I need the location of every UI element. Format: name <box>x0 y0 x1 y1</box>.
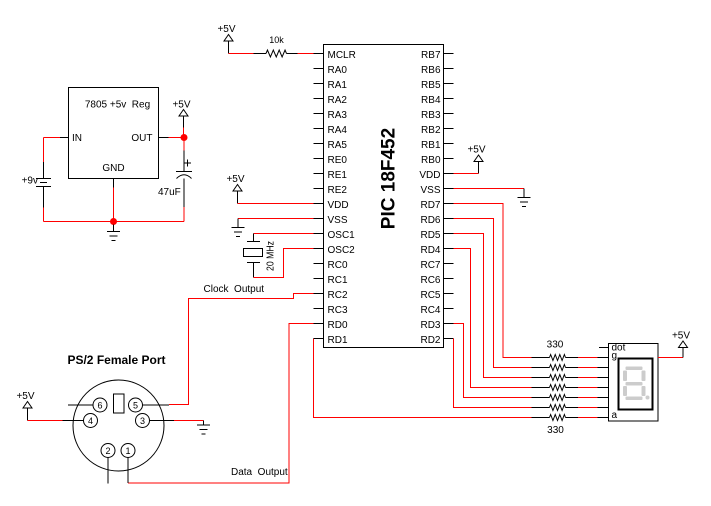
wire RD0 data output net <box>128 324 314 484</box>
pin stub U1 left OSC2 <box>314 248 324 250</box>
pin stub U1 right RC4 <box>444 308 454 310</box>
display segment bottom-left <box>623 386 627 396</box>
pin stub U1 right RD4 <box>444 248 454 250</box>
pin stub U1 left RE1 <box>314 173 324 175</box>
pin stub U1 right RB0 <box>444 158 454 160</box>
wire RC2 clock output net <box>169 294 314 405</box>
pin stub U1 left RA5 <box>314 143 324 145</box>
wire R8 to display <box>578 417 598 419</box>
resistor R3 330 lead left <box>532 367 550 369</box>
resistor R4 330 lead left <box>532 377 550 379</box>
pin stub U1 left MCLR <box>314 53 324 55</box>
svg-text:+5V: +5V <box>172 100 190 111</box>
resistor R6 330 lead left <box>532 397 550 399</box>
pin 2 stub (not connected) <box>107 458 109 484</box>
wire +5V to VDD pin <box>238 203 314 205</box>
wire R4 to display <box>578 377 598 379</box>
resistor R7 330 lead left <box>532 407 550 409</box>
svg-text:RD4: RD4 <box>420 245 440 256</box>
wire display common anode to +5V <box>658 357 683 359</box>
display DS1 outer body <box>609 344 659 422</box>
capacitor C1 bottom lead <box>183 179 185 208</box>
wire R2 to display <box>578 357 598 359</box>
resistor R5 330 body <box>550 385 566 391</box>
pin stub U1 left RC0 <box>314 263 324 265</box>
svg-text:20 MHz: 20 MHz <box>266 241 277 271</box>
pin stub U1 left RA0 <box>314 68 324 70</box>
svg-text:VSS: VSS <box>328 215 348 226</box>
svg-text:RC7: RC7 <box>420 260 440 271</box>
svg-text:7805 +5v Reg: 7805 +5v Reg <box>85 100 150 111</box>
resistor R2 330 lead left <box>532 357 550 359</box>
svg-text:RD2: RD2 <box>420 335 440 346</box>
svg-text:MCLR: MCLR <box>328 50 356 61</box>
resistor R8 330 lead left <box>532 417 550 419</box>
pin stub U1 right RB7 <box>444 53 454 55</box>
display segment bottom <box>626 397 643 401</box>
wire R1 to MCLR <box>298 53 314 55</box>
svg-text:47uF: 47uF <box>158 187 181 198</box>
capacitor C1 plus sign <box>185 160 192 167</box>
svg-text:10k: 10k <box>269 35 284 45</box>
IC U1 PIC 18F452 body <box>324 45 444 348</box>
pin stub U1 right RC7 <box>444 263 454 265</box>
pin stub U1 right RB5 <box>444 83 454 85</box>
pin stub U1 right RC6 <box>444 278 454 280</box>
connector J1 PS/2 outer circle <box>73 380 164 471</box>
wire VDD right pin to +5V <box>454 173 479 175</box>
pin stub U1 right RD6 <box>444 218 454 220</box>
wire R5 to display <box>578 387 598 389</box>
resistor R6 330 body <box>550 395 566 401</box>
pin stub U1 right RB3 <box>444 113 454 115</box>
svg-text:RB6: RB6 <box>421 65 441 76</box>
display segment top-left <box>623 371 627 382</box>
svg-text:RB5: RB5 <box>421 80 441 91</box>
pin stub U1 left RE2 <box>314 188 324 190</box>
svg-text:6: 6 <box>97 401 102 411</box>
label PIC 18F452 <box>379 128 400 229</box>
svg-text:RD7: RD7 <box>420 200 440 211</box>
pin stub U1 right RD7 <box>444 203 454 205</box>
pin stub U1 left RC2 <box>314 293 324 295</box>
pin stub U1 left RD0 <box>314 323 324 325</box>
resistor R6 330 lead right <box>566 397 579 399</box>
svg-text:OSC1: OSC1 <box>328 230 356 241</box>
label 20 MHz value <box>266 241 277 271</box>
resistor R2 330 lead right <box>566 357 579 359</box>
crystal X1 bottom lead <box>253 263 255 278</box>
resistor R8 330 lead right <box>566 417 579 419</box>
pin stub U1 right RD5 <box>444 233 454 235</box>
connector J1 pin 2 circle <box>101 444 115 458</box>
wire VSS right pin to ground <box>454 188 525 190</box>
ground symbol below U2 <box>113 225 115 232</box>
junction ground rail node <box>110 218 117 225</box>
svg-text:+9v: +9v <box>22 176 38 187</box>
wire RD1 to resistor segment a <box>314 339 532 418</box>
svg-text:4: 4 <box>88 416 93 426</box>
svg-text:RC2: RC2 <box>328 290 348 301</box>
svg-text:PS/2 Female Port: PS/2 Female Port <box>67 353 165 367</box>
wire ground rail to C1 <box>114 221 185 223</box>
wire U2 GND lead <box>113 179 115 188</box>
pin stub U1 left VDD <box>314 203 324 205</box>
wire R1 lead right <box>287 53 298 55</box>
svg-text:RD3: RD3 <box>420 320 440 331</box>
display segment top-right <box>642 371 646 382</box>
pin stub U1 left RC3 <box>314 308 324 310</box>
pin stub U1 left OSC1 <box>314 233 324 235</box>
battery BT1 plates <box>36 179 51 187</box>
pin stub U1 right RB6 <box>444 68 454 70</box>
pin stub U1 right RD3 <box>444 323 454 325</box>
pin stub U1 left RA1 <box>314 83 324 85</box>
wire RD3 to resistor row <box>454 324 532 398</box>
svg-text:Clock Output: Clock Output <box>204 284 265 295</box>
resistor R5 330 lead left <box>532 387 550 389</box>
battery BT1 bottom lead <box>43 187 45 208</box>
pin stub U1 left RA3 <box>314 113 324 115</box>
svg-text:IN: IN <box>72 133 82 144</box>
pin stub U1 left VSS <box>314 218 324 220</box>
svg-text:RB2: RB2 <box>421 125 441 136</box>
resistor R3 330 body <box>550 365 566 371</box>
pin 1 stub to data wire <box>127 458 129 484</box>
pin stub U1 right VDD <box>444 173 454 175</box>
svg-text:RA3: RA3 <box>328 110 348 121</box>
connector J1 pin 6 circle <box>93 398 107 412</box>
power +5V symbol (regulator output) <box>172 100 190 117</box>
ground symbol at VSS left <box>232 227 245 229</box>
svg-text:RB7: RB7 <box>421 50 441 61</box>
wire RD2 to resistor row <box>454 339 532 408</box>
svg-text:RC3: RC3 <box>328 305 348 316</box>
power +5V symbol (display) <box>672 331 690 348</box>
svg-text:RB0: RB0 <box>421 155 441 166</box>
svg-text:RA0: RA0 <box>328 65 348 76</box>
wire battery negative to ground rail <box>43 208 45 222</box>
wire OSC1 to crystal <box>254 233 314 235</box>
display DS1 inner face <box>619 359 653 410</box>
pin stub U1 right RB4 <box>444 98 454 100</box>
wire R1 lead left <box>254 53 267 55</box>
svg-text:RB3: RB3 <box>421 110 441 121</box>
pin stub U1 right VSS <box>444 188 454 190</box>
wire IN lead <box>60 137 69 139</box>
display decimal point <box>646 396 650 400</box>
svg-text:330: 330 <box>547 340 564 351</box>
resistor R1 10k <box>266 50 286 57</box>
junction +5V output node <box>181 134 188 141</box>
power +5V symbol (MCLR pull-up) <box>217 24 235 41</box>
svg-text:RD1: RD1 <box>328 335 348 346</box>
wire R7 to display <box>578 407 598 409</box>
svg-text:+5V: +5V <box>672 331 690 342</box>
connector J1 pin 4 circle <box>84 414 98 428</box>
connector J1 pin 1 circle <box>121 444 135 458</box>
pin stub U1 left RE0 <box>314 158 324 160</box>
svg-text:+5V: +5V <box>217 24 235 35</box>
pin 6 stub (not connected) <box>68 404 93 406</box>
svg-text:1: 1 <box>125 446 130 456</box>
pin 3 stub <box>150 420 175 422</box>
svg-text:3: 3 <box>140 416 145 426</box>
pin stub U1 left RC1 <box>314 278 324 280</box>
svg-text:RA4: RA4 <box>328 125 348 136</box>
svg-text:RC4: RC4 <box>420 305 440 316</box>
display segment bottom-right <box>642 386 646 396</box>
svg-text:OSC2: OSC2 <box>328 245 356 256</box>
capacitor C1 47uF plates <box>176 172 192 179</box>
resistor R4 330 body <box>550 375 566 381</box>
wire OUT to +5V node <box>169 137 185 139</box>
connector J1 pin 5 circle <box>129 398 143 412</box>
voltage regulator U2 7805 body <box>69 88 159 179</box>
wire RD5 to resistor row <box>454 234 532 378</box>
resistor R7 330 lead right <box>566 407 579 409</box>
wire VSS pin to ground <box>238 218 314 220</box>
svg-text:RB4: RB4 <box>421 95 441 106</box>
svg-text:VDD: VDD <box>328 200 349 211</box>
resistor R2 330 body <box>550 355 566 361</box>
svg-text:RD6: RD6 <box>420 215 440 226</box>
svg-text:RC1: RC1 <box>328 275 348 286</box>
wire C1 to ground rail <box>183 207 185 222</box>
wire RD7 to resistor row <box>454 204 532 358</box>
ground symbol at PS/2 pin 3 <box>203 421 205 426</box>
power +5V symbol (VDD right) <box>467 145 485 162</box>
svg-text:RE0: RE0 <box>328 155 348 166</box>
wire crystal to OSC2 <box>254 249 314 278</box>
battery BT1 +9v top lead <box>43 162 45 179</box>
resistor R5 330 lead right <box>566 387 579 389</box>
svg-text:RC5: RC5 <box>420 290 440 301</box>
pin stub U1 right RD2 <box>444 338 454 340</box>
wire +5V to pin 4 <box>28 420 63 422</box>
connector J1 key slot <box>114 394 125 413</box>
wire R6 to display <box>578 397 598 399</box>
svg-text:330: 330 <box>547 425 564 436</box>
svg-text:g: g <box>612 351 618 362</box>
wire RD4 to resistor row <box>454 249 532 388</box>
crystal X1 20 MHz <box>244 242 263 263</box>
svg-text:OUT: OUT <box>131 133 152 144</box>
svg-text:5: 5 <box>133 401 138 411</box>
wire U2 GND to ground rail <box>113 188 115 222</box>
pin 5 stub to clock wire <box>143 404 170 406</box>
pin stub U1 left RA2 <box>314 98 324 100</box>
svg-text:RA1: RA1 <box>328 80 348 91</box>
pin 4 stub <box>63 420 84 422</box>
svg-text:+5V: +5V <box>16 391 34 402</box>
pin stub U1 left RD1 <box>314 338 324 340</box>
svg-text:GND: GND <box>102 163 124 174</box>
resistor R3 330 lead right <box>566 367 579 369</box>
display segment top <box>626 367 643 371</box>
power +5V symbol (VDD left) <box>226 174 244 191</box>
resistor R7 330 body <box>550 405 566 411</box>
svg-text:+5V: +5V <box>467 145 485 156</box>
svg-text:VDD: VDD <box>419 170 440 181</box>
resistor R8 330 body <box>550 415 566 421</box>
wire battery positive to IN <box>44 137 61 139</box>
resistor R4 330 lead right <box>566 377 579 379</box>
svg-text:RC6: RC6 <box>420 275 440 286</box>
svg-text:2: 2 <box>105 446 110 456</box>
pin stub U1 right RB1 <box>444 143 454 145</box>
svg-text:Data Output: Data Output <box>231 467 288 478</box>
pin stub U1 right RC5 <box>444 293 454 295</box>
svg-text:RE2: RE2 <box>328 185 348 196</box>
pin stub U1 left RA4 <box>314 128 324 130</box>
power +5V symbol (PS/2 pin 4) <box>16 391 34 408</box>
ground symbol at VSS right <box>518 197 531 199</box>
pin stub display dot <box>599 347 609 349</box>
wire RD6 to resistor row <box>454 219 532 368</box>
wire +5V node to C1 positive <box>183 141 185 151</box>
wire OUT lead <box>159 137 169 139</box>
wire +5V to R1 <box>229 53 254 55</box>
svg-text:RC0: RC0 <box>328 260 348 271</box>
svg-text:RA2: RA2 <box>328 95 348 106</box>
display segment middle <box>626 382 643 386</box>
pin stub U1 right RB2 <box>444 128 454 130</box>
svg-text:RA5: RA5 <box>328 140 348 151</box>
svg-text:VSS: VSS <box>420 185 440 196</box>
svg-text:a: a <box>612 410 618 421</box>
svg-text:+5V: +5V <box>226 174 244 185</box>
wire pin 3 to ground <box>174 420 204 422</box>
connector J1 pin 3 circle <box>136 414 150 428</box>
svg-text:RB1: RB1 <box>421 140 441 151</box>
svg-text:RD5: RD5 <box>420 230 440 241</box>
svg-text:RD0: RD0 <box>328 320 348 331</box>
wire R3 to display <box>578 367 598 369</box>
svg-text:RE1: RE1 <box>328 170 348 181</box>
svg-text:PIC 18F452: PIC 18F452 <box>379 128 400 229</box>
